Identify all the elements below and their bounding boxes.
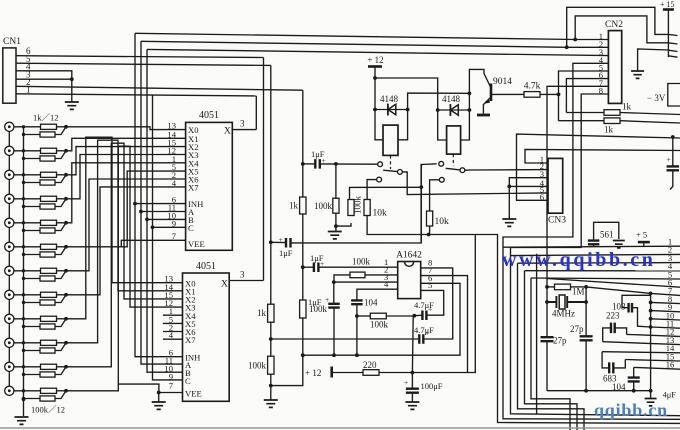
resistor 1k #12: [41, 388, 57, 393]
diode 4148 D1: [375, 109, 408, 111]
resistor 1k #5: [41, 220, 57, 225]
wire C13 right lead: [632, 308, 651, 327]
svg-text:1k: 1k: [289, 201, 299, 211]
ground U2 VEE: [152, 402, 166, 409]
svg-text:www.qqibb.cn: www.qqibb.cn: [502, 249, 655, 271]
svg-text:9: 9: [172, 218, 176, 228]
wire key K8 to U1 X7: [66, 187, 186, 295]
diode 4148 D2: [438, 109, 470, 111]
node CN3 pin3/4: [507, 185, 511, 189]
ground key rail: [15, 417, 29, 424]
svg-text:7: 7: [169, 381, 174, 391]
wire key K5 to resistor: [14, 222, 41, 224]
svg-text:27p: 27p: [570, 324, 584, 334]
wire cpu ground rail: [650, 293, 652, 398]
wire stub U2 X6: [163, 331, 183, 333]
wire N1 to 100k R18: [350, 187, 422, 199]
wire crystal rail left: [546, 279, 548, 391]
connector CN1: [3, 48, 16, 103]
node rail line10: [649, 317, 653, 321]
wire cpu line 7: [586, 287, 680, 296]
wire +15 tick 4: [668, 56, 677, 57]
svg-text:100μF: 100μF: [421, 381, 443, 391]
svg-text:+: +: [667, 155, 671, 164]
wire key K5 to U1 X4: [66, 163, 186, 223]
svg-text:+: +: [404, 378, 408, 387]
wire +15 tick 2: [668, 43, 677, 44]
node key K1 rail: [22, 125, 25, 128]
svg-text:100k: 100k: [352, 257, 371, 267]
svg-text:1μF: 1μF: [308, 297, 322, 307]
capacitor 4.7uF C7: [419, 334, 423, 344]
node rail ground junction: [269, 384, 273, 388]
wire cpu line 4: [525, 270, 680, 272]
node collector junction: [468, 92, 472, 96]
wire cpu line 12: [627, 334, 680, 336]
node key net 11: [64, 365, 68, 369]
wire C1 left: [271, 241, 286, 243]
key K4: [5, 194, 14, 203]
wire C5 bottom: [356, 304, 358, 355]
wire 1k #7 to node: [57, 270, 67, 272]
wire 100k R18 bottom link: [336, 223, 351, 226]
node rail line11: [649, 325, 653, 329]
wire cpu line 5: [531, 278, 680, 279]
wire C14 left lead: [603, 328, 611, 342]
svg-text:+ 5: + 5: [636, 230, 647, 240]
border bottom: [0, 427, 680, 428]
wire cpu rail 4 down: [525, 271, 578, 430]
node key K10 rail: [22, 341, 25, 344]
resistor 1k R26: [559, 120, 605, 122]
node key K2 rail: [22, 149, 25, 152]
wire 220 feed: [332, 372, 363, 374]
svg-text:223: 223: [606, 311, 620, 321]
wire N2 spur: [468, 235, 476, 373]
wire +15 rail: [667, 10, 669, 58]
wire U3 pin5 to C6: [421, 290, 444, 315]
wire key K11 to U2 X2: [66, 143, 183, 367]
wire C8 to ground: [411, 393, 413, 402]
resistor 100k #1: [40, 132, 55, 137]
svg-text:CN3: CN3: [548, 216, 566, 226]
wire rail CN1 pin2 net top: [302, 90, 304, 197]
node key K6 rail: [22, 245, 25, 248]
wire INH pin U1: [135, 203, 186, 205]
svg-text:3: 3: [240, 270, 245, 280]
node key K7 rail: [22, 269, 25, 272]
node N1 junction: [419, 185, 423, 189]
wire 1k #8 to node: [57, 294, 67, 296]
wire R22 bottom: [367, 216, 429, 235]
node key net 9: [64, 317, 68, 321]
wire key K3 to U1 X2: [66, 147, 186, 175]
wire C13 left lead: [622, 295, 651, 307]
node line B / C4: [332, 353, 336, 357]
wire cpu rail 5 down: [531, 278, 570, 430]
connector CN2: [608, 31, 621, 104]
wire cpu line 2: [511, 254, 680, 255]
capacitor 1uF C4: [333, 282, 335, 304]
svg-text:+: +: [428, 305, 432, 314]
svg-text:1: 1: [26, 85, 31, 95]
resistor 1k #1: [41, 124, 57, 129]
svg-text:100k: 100k: [248, 361, 267, 371]
node key net 2: [64, 149, 68, 153]
node 100k R17 top: [334, 162, 338, 166]
resistor 220 R21: [363, 370, 379, 376]
wire CN2 pin2 over-route: [567, 7, 669, 47]
node key rail bottom: [22, 397, 26, 401]
node 100k #6 rail: [22, 253, 25, 256]
key K7: [5, 266, 14, 275]
svg-text:1k／12: 1k／12: [33, 113, 59, 123]
wire crystal rail right: [585, 287, 587, 391]
resistor 1M R27: [547, 286, 555, 288]
node line A left: [269, 337, 273, 341]
node 1uF C3 junction: [301, 265, 305, 269]
capacitor 1uF C3: [314, 262, 319, 272]
svg-text:+ 12: + 12: [367, 55, 383, 65]
svg-text:+: +: [425, 329, 429, 338]
wire +15 tick 3: [668, 50, 677, 51]
node key K4 rail: [22, 197, 25, 200]
svg-text:3: 3: [240, 119, 245, 129]
wire CN2 pin8 to cpu rail 2: [511, 94, 680, 416]
wire 100k #7 leads: [24, 271, 67, 279]
wire C4 bottom: [333, 308, 335, 356]
node key net 12: [64, 389, 68, 393]
wire B1 arm: [383, 170, 397, 171]
connector CN3: [548, 158, 563, 213]
resistor 1k #10: [41, 340, 57, 345]
svg-text:+: +: [325, 295, 329, 304]
resistor 100k R19 (pin2): [334, 275, 350, 282]
wire ground link CN2 right: [638, 49, 669, 71]
wire key K9 to resistor: [14, 318, 41, 320]
key K2: [5, 146, 14, 155]
wire +15 tick 1: [668, 34, 677, 35]
node rail 1uF C1 junction: [269, 240, 273, 244]
wire rail to ground: [270, 374, 272, 400]
resistor 100k R20: [357, 315, 370, 317]
CN1 pin 1 wire: [16, 94, 256, 96]
wire cpu line 14: [602, 352, 680, 353]
svg-text:100k: 100k: [314, 201, 333, 211]
node 220/100uF junction: [411, 371, 415, 375]
svg-text:1k: 1k: [604, 125, 614, 135]
resistor 1k #9: [41, 316, 57, 321]
wire stub U2 X4: [163, 314, 183, 316]
key K11: [5, 362, 14, 371]
resistor 1k #8: [41, 292, 57, 297]
resistor 100k R18: [348, 200, 354, 216]
wire 1k #6 to node: [57, 246, 67, 248]
svg-text:1k: 1k: [257, 308, 267, 318]
wire C15 right lead: [613, 360, 625, 368]
node rail line9: [649, 309, 653, 313]
multiplexer U1 4051: [186, 122, 233, 250]
wire 100k #4 leads: [24, 199, 67, 207]
node 10k bottoms junction: [427, 233, 431, 237]
wire 100k #3 leads: [24, 175, 67, 183]
wire 1k #10 to node: [57, 342, 67, 344]
wire C10 top to ground: [594, 222, 619, 240]
capacitor 100uF C8: [411, 373, 413, 389]
contact A1: [378, 162, 383, 167]
svg-text:X7: X7: [185, 335, 196, 345]
wire R23 bottom: [429, 226, 431, 235]
wire U2 X output (pin 3): [229, 280, 263, 282]
resistor 100k #11: [40, 372, 55, 377]
node crystal left: [545, 300, 549, 304]
wire 1k #2 to node: [57, 150, 67, 152]
wire key K6 to resistor: [14, 246, 41, 248]
wire key K10 to resistor: [14, 342, 41, 344]
wire key K2 to U1 X1: [66, 138, 186, 151]
wire C14 right lead: [615, 328, 627, 335]
node rail line7: [649, 292, 653, 296]
wire C16 bottom lead: [633, 381, 635, 390]
svg-text:4148: 4148: [380, 94, 399, 104]
svg-text:16: 16: [666, 360, 675, 370]
wire CN2 pin4 to cpu rail 1: [503, 63, 680, 419]
CN1 pin 5 wire: [16, 63, 271, 65]
wire 100k #6 leads: [24, 247, 67, 255]
capacitor 27p C11: [541, 337, 554, 341]
node U2 VEE: [157, 391, 161, 395]
wire 100k #1 leads: [24, 127, 67, 135]
CN1 pin 6 wire: [16, 56, 264, 58]
svg-text:VEE: VEE: [185, 389, 202, 399]
node 1uF C2 junction: [301, 162, 305, 166]
wire C1 to 10k R22: [367, 180, 377, 200]
svg-text:X: X: [224, 126, 231, 136]
ground C8: [405, 402, 419, 409]
capacitor 223 C14: [611, 323, 615, 334]
wire CN2 pin5: [559, 71, 609, 121]
svg-text:27p: 27p: [553, 336, 567, 346]
wire C2 left: [303, 163, 316, 165]
node bus meets cpu ground rail: [649, 389, 653, 393]
capacitor 103 C13: [629, 303, 632, 313]
node 100k #10 rail: [22, 349, 25, 352]
wire Q1 base to 4.7k: [491, 93, 524, 95]
resistor 1k R13: [268, 304, 274, 322]
wire +5 stem: [643, 242, 645, 246]
wire R17 bottom: [335, 213, 337, 231]
svg-text:561: 561: [600, 230, 614, 240]
contact B2 common: [460, 168, 465, 173]
resistor 10k R23: [427, 211, 433, 226]
wire key K12 branch to U2 VEE: [118, 384, 159, 392]
key K9: [5, 314, 14, 323]
wire 4.7k to CN2 pin5 rail: [540, 93, 559, 95]
resistor 100k #4: [40, 204, 55, 209]
wire 1k #11 to node: [57, 366, 67, 368]
resistor 100k #8: [40, 300, 55, 305]
wire rail mid: [302, 214, 304, 300]
wire cpu line 3: [518, 262, 680, 265]
resistor 100k R14: [268, 356, 274, 374]
wire key K4 to U1 X3: [66, 155, 186, 199]
svg-text:10k: 10k: [373, 209, 388, 219]
wire key K10 to U2 X1: [66, 140, 183, 343]
wire 100k #9 leads: [24, 319, 67, 327]
svg-text:100k: 100k: [353, 196, 363, 215]
node CN2 pin1: [573, 38, 577, 42]
key K5: [5, 218, 14, 227]
wire CN3 pin3: [509, 178, 548, 187]
wire cpu line 13: [603, 342, 680, 345]
wire key K11 to resistor: [14, 366, 41, 368]
wire key K1 to resistor: [14, 126, 41, 128]
wire rail bottom: [271, 318, 303, 386]
svg-text:+ 15: + 15: [660, 0, 675, 9]
wire rail CN1 pin5 net: [270, 65, 272, 304]
svg-text:5: 5: [428, 280, 432, 290]
svg-text:104: 104: [364, 298, 378, 308]
wire +12 to relay2 coil: [438, 110, 447, 140]
capacitor 27p C12: [580, 336, 593, 340]
wire U3 pin6 to line B: [303, 283, 460, 355]
svg-text:7: 7: [172, 231, 177, 241]
wire U2 VEE to ground: [159, 393, 183, 403]
capacitor 1uF C1: [286, 238, 291, 248]
node B junction at 4051 U1: [145, 218, 149, 222]
node base rail junction: [557, 93, 561, 97]
wire 100k #11 leads: [24, 367, 67, 375]
wire CN3 pin6 to R1 bus: [517, 134, 680, 200]
wire C pin U1: [153, 226, 186, 228]
wire relay1 to collector: [408, 93, 470, 109]
svg-text:X: X: [221, 279, 228, 289]
node 104 ground: [632, 389, 636, 393]
wire relay1 plunger (dashed): [390, 155, 392, 169]
wire key common rail: [23, 127, 25, 416]
node 100k #5 rail: [22, 229, 25, 232]
contact C1: [377, 177, 382, 182]
wire key K8 to resistor: [14, 294, 41, 296]
wire 1k #5 to node: [57, 222, 67, 224]
wire U3 pin7 to 220: [412, 276, 467, 373]
capacitor 104 C16: [628, 378, 640, 382]
node line B / C5: [355, 353, 359, 357]
CN1 pin 2 wire: [16, 86, 303, 90]
capacitor 683 C15: [609, 362, 613, 373]
svg-text:100k: 100k: [370, 320, 389, 330]
resistor 100k #5: [40, 228, 55, 233]
wire key K7 to resistor: [14, 270, 41, 272]
wire C10 bottom: [593, 244, 595, 247]
wire key K1 to U1 X0: [66, 127, 186, 130]
relay coil K2: [447, 126, 461, 154]
wire CN2 pin6: [566, 79, 608, 113]
wire N2 to bottom rails: [429, 235, 680, 424]
wire line L1 (CN2 pin1 bus): [135, 33, 575, 39]
svg-text:4148: 4148: [442, 94, 461, 104]
wire cpu line 11: [651, 327, 680, 328]
wire key K4 to resistor: [14, 198, 41, 200]
wire cpu line 8: [651, 302, 680, 303]
wire C address rail: [153, 95, 183, 380]
node key net 10: [64, 341, 68, 345]
node key K5 rail: [22, 221, 25, 224]
node key net 5: [64, 221, 68, 225]
node key net 8: [64, 293, 68, 297]
wire C6 left: [414, 314, 422, 317]
ground CN3: [502, 219, 516, 226]
resistor 4.7k R24: [524, 92, 540, 98]
CN1 pin 4 wire: [16, 71, 72, 79]
svg-text:− 3V: − 3V: [647, 93, 666, 103]
wire 1k #9 to node: [57, 318, 67, 320]
resistor 100k #2: [40, 156, 55, 161]
wire line A: [271, 338, 420, 340]
wire relay1 coil right: [398, 110, 408, 140]
wire key K7 to U1 X6: [66, 179, 186, 271]
node CN1 pin3/4 junction: [70, 77, 74, 81]
wire B2 arm: [446, 168, 460, 170]
svg-text:1μF: 1μF: [279, 248, 293, 258]
svg-text:4: 4: [172, 178, 177, 188]
svg-text:4MHz: 4MHz: [552, 309, 575, 319]
contact B1 common: [398, 170, 403, 175]
wire 100k #8 leads: [24, 295, 67, 303]
capacitor 561 C10: [588, 241, 600, 245]
node 100k #3 rail: [22, 181, 25, 184]
key K8: [5, 290, 14, 299]
node key K11 rail: [22, 365, 25, 368]
svg-text:1k: 1k: [622, 102, 632, 112]
svg-text:4μF: 4μF: [663, 390, 677, 400]
node R17 ground junction: [334, 224, 338, 228]
svg-text:X7: X7: [188, 183, 199, 193]
node diode D1 left: [373, 108, 377, 112]
wire B address rail: [147, 49, 183, 372]
relay coil K1: [383, 125, 398, 155]
svg-text:+ 12: + 12: [305, 368, 321, 378]
crystal Y1 4MHz: [547, 296, 586, 308]
wire oscillator ground bus: [547, 390, 651, 392]
wire CN2 pin7: [547, 86, 608, 278]
svg-text:4.7k: 4.7k: [524, 82, 541, 92]
svg-text:220: 220: [363, 360, 377, 370]
wire rail below 1k R13: [270, 322, 272, 356]
resistor 100k R17: [335, 164, 337, 199]
wire line L2 (CN2 pin2 bus): [141, 41, 567, 47]
wire +12 to relay2: [375, 78, 438, 110]
node key net 7: [64, 269, 68, 273]
resistor 1k #4: [41, 196, 57, 201]
contact A2: [439, 161, 444, 166]
node R20 right junction: [412, 314, 416, 318]
node key net 6: [64, 245, 68, 249]
node A junction at 4051 U1: [139, 210, 143, 214]
wire aux rail: [536, 254, 538, 414]
node pin3 junction: [332, 280, 336, 284]
wire cpu line 10: [651, 319, 680, 320]
wire 1k #1 to node: [57, 126, 67, 128]
svg-text:9014: 9014: [493, 77, 512, 87]
ground C10: [613, 241, 625, 248]
wire U1 VEE: [121, 240, 185, 247]
wire B pin U1: [147, 218, 186, 220]
svg-text:CN1: CN1: [3, 37, 21, 47]
key K6: [5, 242, 14, 251]
node key net 1: [64, 125, 68, 129]
svg-text:C: C: [185, 376, 191, 386]
